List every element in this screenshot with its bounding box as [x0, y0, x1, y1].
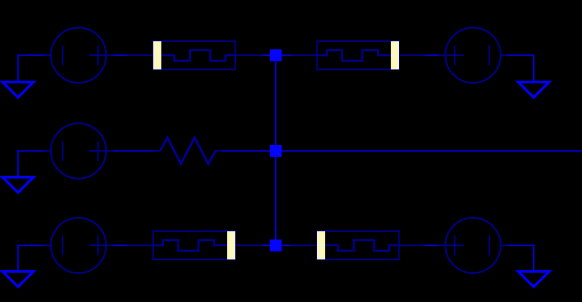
wire: memristor M3 to node C	[262, 244, 270, 246]
node A (top junction)	[270, 49, 282, 61]
resistor R1	[153, 138, 222, 164]
ground (middle-left)	[3, 177, 34, 192]
voltage source V1 (top-left)	[45, 28, 114, 83]
wire: middle row, ground to source V3	[18, 150, 45, 177]
wire: bottom row, ground to source V4	[18, 245, 45, 272]
memristor M4 (bottom-right, bar on left)	[291, 231, 425, 259]
wire: node B to right edge	[282, 150, 582, 152]
ground (top-right)	[518, 82, 549, 97]
node C (bottom junction)	[270, 240, 282, 252]
ground (bottom-left)	[3, 271, 34, 286]
wire: memristor M1 to node A	[262, 54, 270, 56]
voltage source V2 (top-right)	[439, 28, 508, 83]
wire: node A to memristor M2	[282, 54, 292, 56]
wire: source V2 to ground (top-right)	[507, 55, 533, 83]
voltage source V5 (bottom-right)	[439, 218, 508, 273]
wire: source V1 to memristor M1	[113, 54, 127, 56]
wire: resistor R1 to node B	[222, 150, 270, 152]
memristor M2 (top-right, bar on right)	[291, 41, 425, 69]
memristor M3 (bottom-left, bar on right)	[127, 231, 262, 259]
wire: source V4 to memristor M3	[113, 244, 127, 246]
wire: memristor M2 to source V2	[425, 54, 439, 56]
wire: source V3 to resistor R1	[113, 150, 154, 152]
wire: memristor M4 to source V5	[425, 244, 439, 246]
wire: top row, ground to source V1	[18, 55, 45, 83]
wire: source V5 to ground (bottom-right)	[507, 245, 533, 272]
wire: node C to memristor M4	[282, 244, 292, 246]
memristor M1 (top-left, bar on left)	[127, 41, 262, 69]
voltage source V4 (bottom-left)	[45, 218, 114, 273]
node B (middle junction)	[270, 145, 282, 157]
voltage source V3 (middle-left)	[45, 123, 114, 178]
ground (bottom-right)	[518, 271, 549, 286]
wire: vertical bus connecting rows 1-3	[275, 55, 277, 245]
ground (top-left)	[3, 82, 34, 97]
